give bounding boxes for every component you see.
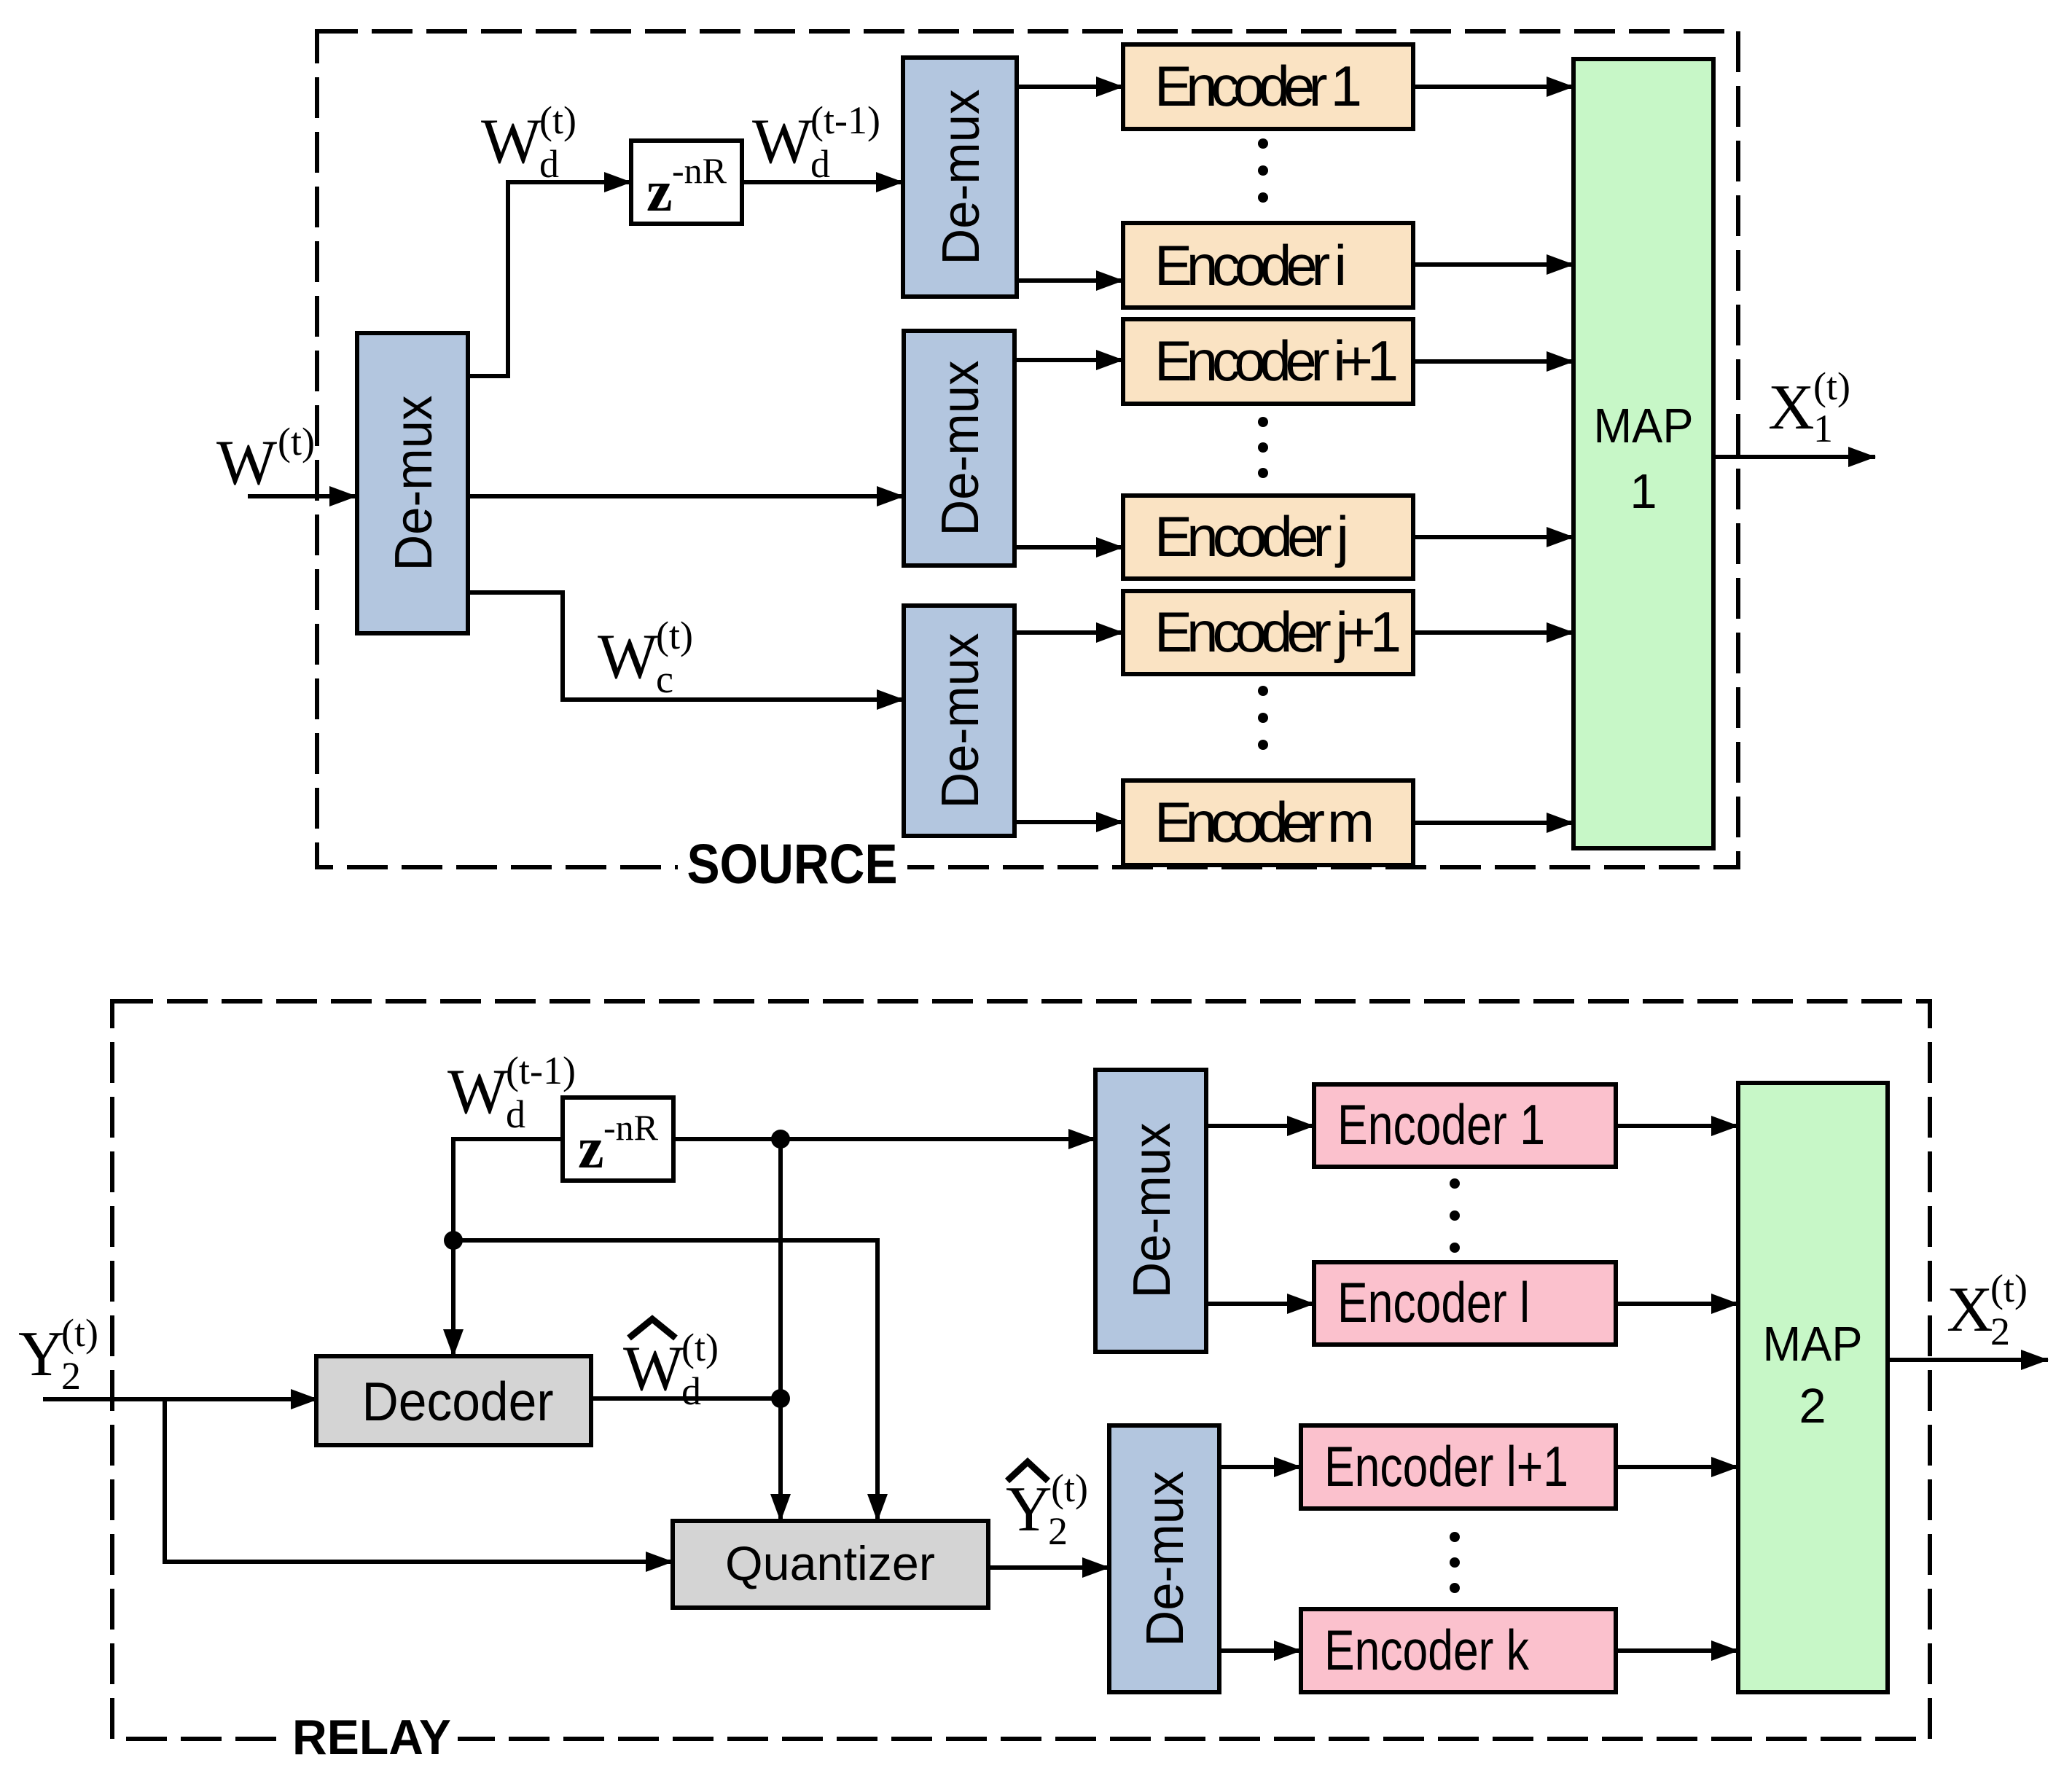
- svg-text:X: X: [1768, 372, 1815, 443]
- svg-text:Decoder: Decoder: [362, 1371, 554, 1432]
- svg-text:2: 2: [61, 1354, 81, 1398]
- svg-text:d: d: [539, 142, 559, 186]
- svg-text:Encoder m: Encoder m: [1154, 790, 1375, 854]
- svg-text:-nR: -nR: [672, 150, 727, 191]
- svg-text:W: W: [598, 622, 658, 692]
- svg-text:RELAY: RELAY: [292, 1710, 451, 1765]
- svg-text:De-mux: De-mux: [932, 90, 990, 265]
- svg-text:-nR: -nR: [603, 1107, 659, 1148]
- svg-text:2: 2: [1990, 1310, 2010, 1353]
- svg-text:(t-1): (t-1): [810, 98, 880, 142]
- svg-text:(t-1): (t-1): [506, 1049, 576, 1092]
- svg-text:Quantizer: Quantizer: [725, 1536, 935, 1590]
- svg-text:De-mux: De-mux: [931, 633, 990, 809]
- svg-text:X: X: [1947, 1275, 1993, 1345]
- svg-text:d: d: [810, 142, 830, 186]
- svg-text:W: W: [752, 106, 813, 177]
- svg-text:d: d: [506, 1092, 525, 1136]
- svg-text:Encoder i: Encoder i: [1154, 233, 1347, 297]
- svg-text:Encoder i+1: Encoder i+1: [1154, 329, 1399, 393]
- svg-text:De-mux: De-mux: [1123, 1123, 1181, 1299]
- svg-text:Encoder k: Encoder k: [1324, 1618, 1530, 1682]
- svg-text:SOURCE: SOURCE: [687, 833, 898, 896]
- svg-text:MAP: MAP: [1763, 1317, 1863, 1372]
- svg-text:Encoder l+1: Encoder l+1: [1324, 1434, 1568, 1498]
- svg-text:Y: Y: [18, 1319, 65, 1390]
- svg-text:(t): (t): [1813, 364, 1850, 408]
- svg-text:MAP: MAP: [1594, 399, 1694, 453]
- svg-text:2: 2: [1799, 1379, 1826, 1433]
- svg-text:Encoder j: Encoder j: [1154, 504, 1349, 568]
- svg-text:Encoder j+1: Encoder j+1: [1154, 600, 1401, 664]
- svg-text:De-mux: De-mux: [1136, 1471, 1195, 1647]
- svg-text:W: W: [216, 428, 277, 498]
- svg-text:Y: Y: [1006, 1474, 1052, 1545]
- svg-text:W: W: [623, 1334, 684, 1404]
- svg-text:(t): (t): [1051, 1466, 1088, 1510]
- svg-text:c: c: [656, 657, 673, 701]
- svg-text:(t): (t): [1990, 1267, 2028, 1310]
- svg-text:De-mux: De-mux: [385, 396, 443, 571]
- svg-text:W: W: [447, 1057, 508, 1127]
- svg-text:(t): (t): [539, 98, 576, 142]
- svg-text:(t): (t): [278, 420, 315, 463]
- svg-text:2: 2: [1048, 1509, 1068, 1553]
- svg-text:(t): (t): [61, 1311, 98, 1355]
- svg-text:Encoder l: Encoder l: [1337, 1270, 1530, 1334]
- svg-text:z: z: [578, 1116, 604, 1181]
- svg-text:W: W: [481, 106, 542, 177]
- svg-text:d: d: [681, 1369, 701, 1413]
- svg-text:1: 1: [1813, 407, 1833, 450]
- svg-text:De-mux: De-mux: [931, 361, 990, 536]
- svg-text:Encoder 1: Encoder 1: [1154, 54, 1362, 118]
- svg-text:1: 1: [1630, 464, 1657, 519]
- svg-text:Encoder 1: Encoder 1: [1337, 1092, 1545, 1157]
- svg-text:(t): (t): [681, 1326, 719, 1369]
- svg-text:z: z: [646, 160, 673, 224]
- svg-text:(t): (t): [656, 614, 693, 657]
